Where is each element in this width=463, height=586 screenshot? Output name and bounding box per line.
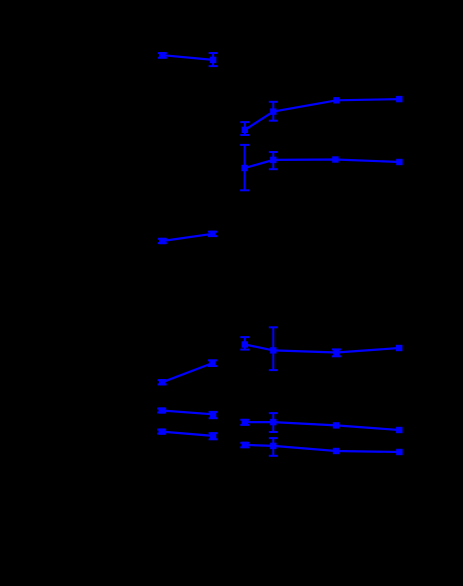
series S4 errorbar P2 bbox=[208, 232, 217, 236]
series S3 errorbar P1 bbox=[240, 145, 249, 190]
series S9 errorbar P2 bbox=[269, 413, 278, 432]
series S10 line (bottom panel bottom curve) bbox=[245, 445, 400, 452]
series S6 markers bbox=[242, 341, 403, 355]
series S2 errorbar P2 bbox=[269, 102, 278, 121]
series S1 line (top-left segment) bbox=[162, 55, 213, 60]
series S3 markers bbox=[241, 156, 402, 171]
series S9 markers bbox=[242, 419, 403, 433]
series S6 line (bottom panel top curve) bbox=[245, 345, 399, 353]
series S8 errorbar P2 bbox=[209, 433, 218, 439]
series S1 errorbar P1 bbox=[158, 53, 167, 58]
series S9 errorbar P1 bbox=[240, 420, 249, 425]
series S2 line (top panel upper curve) bbox=[245, 99, 399, 130]
series S8 markers bbox=[159, 428, 217, 439]
series S7 errorbar P2 bbox=[209, 412, 218, 418]
series S3 line (top panel lower curve) bbox=[245, 160, 400, 169]
series S7 errorbar P1 bbox=[157, 409, 166, 413]
series S1 markers bbox=[159, 52, 216, 63]
series S2 markers bbox=[242, 96, 403, 133]
series S5 errorbar P2 bbox=[208, 360, 217, 366]
series S4 markers bbox=[159, 231, 216, 245]
series S8 errorbar P1 bbox=[157, 430, 166, 434]
series S5 line (bottom panel upper-left segment) bbox=[162, 363, 212, 382]
series S3 errorbar P2 bbox=[269, 152, 278, 169]
series S6 errorbar P2 bbox=[269, 327, 278, 370]
series S1 errorbar P2 bbox=[209, 53, 218, 66]
series S10 markers bbox=[242, 442, 403, 455]
series S5 errorbar P1 bbox=[158, 380, 167, 384]
series S10 errorbar P2 bbox=[269, 438, 278, 456]
series S7 line (bottom panel mid-left segment) bbox=[162, 411, 213, 415]
series S9 line (bottom panel middle curve) bbox=[245, 422, 399, 430]
series S6 errorbar P1 bbox=[240, 337, 249, 350]
series S6 errorbar P3 bbox=[332, 349, 341, 356]
series S5 markers bbox=[159, 360, 216, 386]
series S4 line (top panel bottom-left segment) bbox=[162, 234, 212, 241]
series S7 markers bbox=[159, 407, 217, 417]
series S8 line (bottom panel lower-left segment) bbox=[162, 432, 213, 436]
series S10 errorbar P1 bbox=[240, 443, 249, 448]
series S4 errorbar P1 bbox=[158, 239, 167, 243]
series S2 errorbar P1 bbox=[240, 122, 249, 135]
